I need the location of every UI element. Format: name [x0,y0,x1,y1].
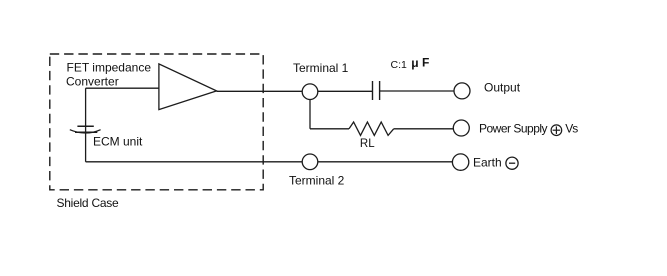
plus symbol (power polarity) [551,125,562,136]
svg-text:RL: RL [360,138,375,150]
wire: to resistor RL [310,128,349,130]
svg-text:Terminal 2: Terminal 2 [289,174,345,188]
wire: earth line [86,161,452,163]
minus symbol (earth polarity) [506,157,518,169]
svg-text:Terminal 1: Terminal 1 [293,61,349,75]
svg-text:ECM unit: ECM unit [93,134,143,148]
node Output [454,83,470,99]
node Terminal 1 [302,84,318,100]
svg-text:Converter: Converter [66,74,119,88]
ECM capsule membrane arc [70,130,101,133]
svg-text:Vs: Vs [565,122,578,136]
wire: terminal 1 down [309,92,311,129]
node Power Supply [453,120,469,136]
shield case dashed box [50,54,263,190]
wire: input to amplifier [86,87,159,89]
svg-text:Power Supply: Power Supply [479,122,548,136]
capacitor C plate right [379,81,381,100]
svg-text:F: F [422,55,429,69]
ECM capsule plate top [77,125,93,127]
wire: capacitor to output terminal [380,90,454,92]
svg-text:FET impedance: FET impedance [67,60,152,74]
svg-text:Earth: Earth [473,156,502,170]
wire: resistor to power supply terminal [394,128,454,130]
svg-text:μ: μ [411,56,418,70]
ECM capsule plate bottom [75,131,97,133]
op-amp triangle (FET impedance converter) [159,64,217,110]
svg-text:C:1: C:1 [391,59,408,71]
wire: amplifier output to capacitor [217,90,373,92]
node Earth [452,154,468,170]
svg-text:Shield Case: Shield Case [57,196,120,210]
capacitor C plate left [372,81,374,100]
wire: vertical through ECM capsule [85,88,87,162]
svg-text:Output: Output [484,81,521,95]
resistor RL zigzag [349,122,394,135]
node Terminal 2 [302,154,318,170]
